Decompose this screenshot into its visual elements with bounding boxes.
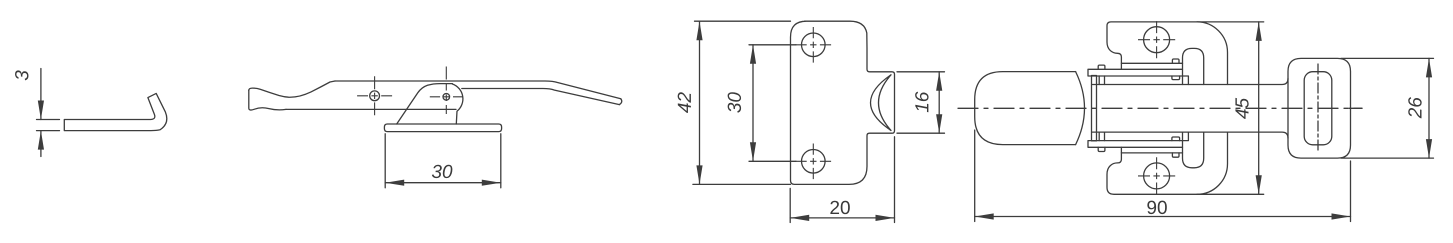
- dimension 30 arrows: [385, 180, 501, 186]
- dimension 16 arrows: [936, 72, 942, 133]
- dimension 26 extensions: [1341, 58, 1434, 158]
- pivot boss arc: [452, 84, 463, 124]
- arm band top: [1088, 69, 1188, 84]
- dimension 26 line: [1428, 58, 1430, 158]
- dimension 16 extensions: [897, 72, 945, 133]
- dimension 30 line: [752, 45, 754, 162]
- grip slot: [1304, 72, 1332, 145]
- tab top-right lower: [1172, 76, 1180, 80]
- pin top: [1099, 76, 1104, 85]
- tab bottom-right lower: [1172, 153, 1179, 157]
- dimension 90 arrows: [975, 213, 1351, 219]
- cross arm hole view2: [357, 76, 392, 115]
- cylinder arcs in protrusion: [871, 75, 892, 131]
- centerline tick right of grip: [1349, 107, 1362, 109]
- dimension 20 line: [790, 217, 894, 219]
- dimension 30 line: [385, 182, 501, 184]
- dimension 42 line: [699, 21, 701, 184]
- top hole: [802, 33, 826, 57]
- dimension 3 extension ticks: [37, 120, 60, 131]
- arm hole: [370, 91, 380, 101]
- hook bar capsule: [975, 72, 1076, 145]
- handle bottom edge: [462, 89, 620, 105]
- bracket outline: [397, 84, 453, 124]
- plate outline top: [1107, 22, 1228, 85]
- top hole v4: [1144, 27, 1170, 53]
- bottom hole: [802, 150, 826, 174]
- tab bottom-left: [1098, 147, 1105, 151]
- text 16: [915, 92, 928, 113]
- text 45: [1235, 98, 1248, 119]
- arch top: [1183, 48, 1204, 84]
- channel left end: [1092, 76, 1097, 141]
- dimension 3 arrows: [38, 101, 44, 150]
- grip slot centerline: [1317, 64, 1319, 153]
- text 30 view2: [432, 165, 453, 178]
- dimension 30 extension lines: [385, 134, 501, 188]
- hook outline: [64, 93, 167, 130]
- text 20: [830, 201, 849, 214]
- arm band bottom: [1088, 132, 1188, 147]
- text 42: [678, 92, 691, 113]
- text 26: [1408, 97, 1421, 118]
- window edge bottom: [1121, 152, 1182, 154]
- dimension 45 extensions: [1197, 22, 1264, 194]
- centerline: [958, 107, 1362, 109]
- dimension 90 left extension: [974, 130, 976, 222]
- bottom hole v4: [1144, 163, 1170, 189]
- arm bottom edge: [286, 108, 456, 110]
- cross bottom hole view4: [1138, 157, 1175, 194]
- dimension 3 lines: [40, 69, 42, 157]
- arm left lower wave: [249, 90, 286, 110]
- dimension 26 arrows: [1426, 58, 1432, 158]
- pin bottom: [1099, 132, 1104, 141]
- grip right edge extension to 90: [1350, 161, 1352, 222]
- tab top-left: [1098, 65, 1105, 69]
- cross top hole view3: [796, 27, 832, 63]
- handle tip cap: [619, 99, 621, 105]
- dimension 90 line: [975, 216, 1351, 218]
- dimension 45 arrows: [1256, 22, 1262, 194]
- window edge top: [1121, 62, 1182, 64]
- cross bottom hole view3: [796, 144, 832, 180]
- bar outer edges: [1092, 79, 1288, 139]
- plate outline bottom: [1107, 132, 1228, 194]
- text 3: [15, 70, 28, 80]
- dimension 20 arrows: [790, 215, 894, 221]
- arm top edge and handle top edge: [335, 81, 621, 99]
- grip head: [1288, 58, 1351, 158]
- cross top hole view4: [1138, 21, 1175, 58]
- tab bottom-right upper: [1172, 137, 1180, 141]
- dimension 42 extensions: [693, 21, 791, 184]
- center crosses (dash-dot): [357, 21, 1175, 194]
- text 90: [1147, 201, 1167, 214]
- dimension 30 extensions: [749, 45, 796, 162]
- dimension 16 line: [938, 72, 940, 133]
- dimension 45 line: [1258, 22, 1260, 194]
- cross pivot view2: [430, 67, 463, 115]
- base plate: [384, 124, 501, 132]
- pivot hole: [443, 94, 450, 101]
- capsule end dome arc: [1076, 72, 1085, 145]
- plate outline: [791, 21, 895, 184]
- dimension 30 arrows: [750, 45, 756, 162]
- arch bottom: [1183, 132, 1204, 168]
- dimension 42 arrows: [696, 21, 702, 184]
- dimension 20 extensions: [790, 137, 894, 223]
- text 30 view3: [728, 92, 741, 113]
- latch arm outline left wave: [249, 81, 335, 97]
- tab top-right upper: [1172, 59, 1179, 63]
